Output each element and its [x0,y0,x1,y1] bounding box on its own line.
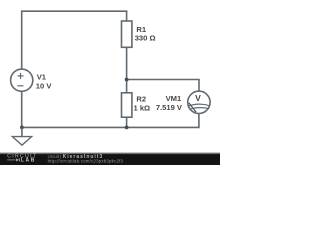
voltmeter VM1 [188,91,211,113]
svg-text:7.519 V: 7.519 V [156,103,183,112]
svg-text:1 kΩ: 1 kΩ [134,103,151,112]
resistor R1 [122,21,132,47]
svg-text:LAB: LAB [21,157,36,163]
svg-text:V: V [195,93,201,103]
CircuitLab logo LAB row [7,157,36,163]
ground [12,127,31,145]
node junction ground [20,126,24,130]
wire VM1 bottom to bottom rail [22,114,199,128]
wire junction to VM1 top [127,80,199,92]
node junction R1-R2-VM1 [125,78,129,82]
svg-text:V1: V1 [37,72,47,81]
wire V1 top to R1 top corner [22,11,127,69]
svg-text:VM1: VM1 [166,94,182,103]
svg-text:R1: R1 [136,25,146,34]
voltage source V1 [11,69,33,91]
node junction bottom R2 [125,126,129,130]
wire V1 bottom [21,91,23,127]
wire R1 to R2 [126,47,128,93]
watermark bar [0,152,220,155]
resistor R2 [122,93,132,117]
svg-text:10 V: 10 V [36,81,53,90]
svg-text:330 Ω: 330 Ω [135,34,156,43]
wire R2 bottom [126,117,128,127]
svg-text:R2: R2 [136,95,146,104]
svg-text:http://circuitlab.com/c23pxb3p: http://circuitlab.com/c23pxb3pkc2f3 [48,158,124,163]
